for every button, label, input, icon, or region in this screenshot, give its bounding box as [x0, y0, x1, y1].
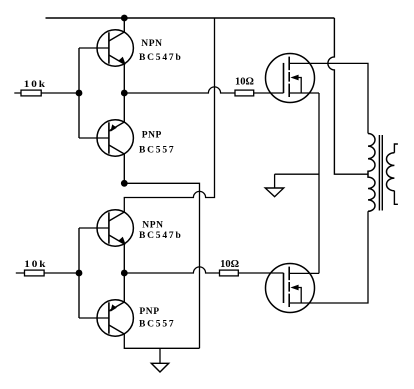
- wire lower input lead: [16, 272, 79, 274]
- svg-text:10Ω: 10Ω: [220, 259, 239, 270]
- transformer T1 secondary winding: [387, 153, 395, 191]
- transistor Q1 base lead: [79, 47, 109, 49]
- wire lower output: emitters to gate of M2 (hops over ground drop): [124, 267, 283, 273]
- transistor Q3 emitter diagonal: [109, 235, 124, 244]
- MOSFET M1 circle: [266, 54, 315, 103]
- MOSFET M1 body lead: [298, 78, 302, 94]
- transistor Q4 base bar: [108, 302, 110, 333]
- transistor Q2 base bar: [108, 122, 110, 153]
- wire top supply rail: [46, 17, 335, 19]
- resistor R1 10k upper body: [21, 90, 41, 96]
- wire M2 drain tap: [289, 272, 319, 274]
- wire supply drop to transformer center tap (hops over drain wire): [328, 18, 368, 174]
- MOSFET M2 circle: [266, 264, 315, 313]
- svg-text:NPN: NPN: [142, 220, 163, 230]
- node E lower base bracket junction dot: [76, 270, 83, 277]
- wire T1 secondary bottom lead: [394, 191, 398, 205]
- node F lower emitter junction junction dot: [121, 270, 128, 277]
- MOSFET M2 gate plate: [283, 273, 285, 303]
- transistor Q1 emitter diagonal: [109, 55, 124, 64]
- value label 10k (lower): [24, 260, 47, 270]
- node C upper emitter junction junction dot: [121, 90, 128, 97]
- wire lower base bracket: [78, 228, 80, 318]
- svg-text:NPN: NPN: [141, 39, 162, 49]
- MOSFET M1 body arrow: [290, 75, 298, 81]
- ground (mid, source column): [274, 174, 276, 188]
- svg-text:PNP: PNP: [139, 307, 159, 317]
- wire Q1 emitter / Q2 emitter column upper: [123, 64, 125, 122]
- transformer T1 primary winding: [368, 134, 375, 212]
- transistor Q4 circle: [97, 300, 133, 336]
- value label 10k (upper): [24, 80, 47, 90]
- transistor Q4 emitter arrow: [110, 304, 116, 311]
- transistor Q3 emitter arrow: [118, 237, 125, 245]
- svg-text:BC547b: BC547b: [139, 53, 183, 63]
- svg-text:10k: 10k: [24, 260, 47, 270]
- transistor Q2 base lead: [79, 137, 109, 139]
- transistor Q3 collector diagonal: [109, 212, 124, 221]
- transformer T1 core: [379, 135, 382, 211]
- wire M2 source to transformer primary bottom: [289, 211, 368, 303]
- wire upper output: emitters to gate of M1 (hops over supply drop): [124, 87, 283, 93]
- svg-text:BC557: BC557: [139, 146, 175, 156]
- transistor Q3 circle: [97, 210, 133, 246]
- transistor Q4 collector diagonal: [109, 325, 124, 334]
- resistor R2 10k lower body: [25, 270, 45, 276]
- wire M1 source / M2 drain column: [318, 93, 320, 273]
- wire M1 source tap: [289, 92, 319, 94]
- wire upper input lead: [14, 92, 79, 94]
- transistor Q3 base lead: [79, 227, 109, 229]
- wire Q3 emitter / Q4 emitter column lower: [123, 244, 125, 302]
- wire Q4 collector to ground bus: [124, 334, 199, 348]
- transistor Q2 emitter arrow: [110, 124, 116, 131]
- transistor Q1 circle: [97, 30, 133, 66]
- MOSFET M2 body arrow: [290, 285, 298, 291]
- node B upper base bracket junction dot: [76, 90, 83, 97]
- MOSFET M1 channel line: [288, 57, 290, 97]
- transistor Q4 emitter diagonal: [109, 302, 124, 311]
- MOSFET M2 channel line: [288, 267, 290, 307]
- wire mid ground to source column: [275, 173, 319, 175]
- svg-text:PNP: PNP: [142, 131, 162, 141]
- svg-text:10k: 10k: [24, 80, 47, 90]
- transistor Q2 collector diagonal: [109, 145, 124, 154]
- wire Q1 collector to rail: [123, 18, 125, 32]
- transistor Q1 collector diagonal: [109, 32, 124, 41]
- transistor Q1 emitter arrow: [118, 57, 125, 65]
- MOSFET M1 gate plate: [283, 63, 285, 93]
- transistor Q2 emitter diagonal: [109, 122, 124, 131]
- resistor R4 10ohm lower body: [220, 270, 239, 276]
- transistor Q1 base bar: [108, 32, 110, 63]
- wire Q3 collector to supply rail (hops over ground drop): [124, 18, 214, 212]
- wire T1 secondary top lead: [394, 144, 398, 153]
- svg-text:BC557: BC557: [139, 319, 175, 329]
- transistor Q4 base lead: [79, 317, 109, 319]
- transistor Q2 circle: [97, 120, 133, 156]
- transistor Q3 base bar: [108, 212, 110, 243]
- node A rail/Q1-collector junction dot: [121, 15, 128, 22]
- MOSFET M2 body lead: [298, 288, 302, 304]
- wire M1 drain to transformer primary top: [289, 63, 368, 133]
- svg-text:BC547b: BC547b: [139, 231, 183, 241]
- resistor R3 10ohm upper body: [235, 90, 254, 96]
- wire Q2 collector drop: [123, 154, 125, 183]
- wire Q2 collector to ground bus: [124, 183, 199, 348]
- ground (bottom, PNP collectors): [159, 348, 161, 363]
- node D Q2 collector junction dot: [121, 180, 128, 187]
- svg-text:10Ω: 10Ω: [235, 76, 254, 87]
- wire upper base bracket: [78, 48, 80, 138]
